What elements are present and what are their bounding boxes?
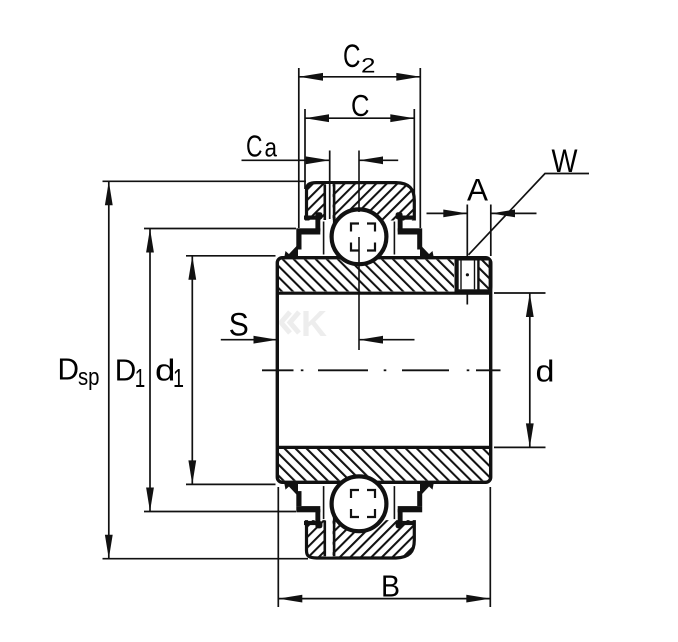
svg-text:sp: sp [78,364,100,391]
svg-text:1: 1 [173,365,184,393]
seal and flinger bottom-right [394,482,433,528]
inner ring outline [277,258,490,483]
dimension Ca [242,130,399,220]
dimension B (inner ring width) [278,487,490,607]
set screw W in inner ring [455,257,493,293]
bore centre line (dash-dot) [262,369,501,371]
svg-text:C: C [343,38,361,74]
seal and flinger top-right [394,212,433,258]
ball top [332,209,387,264]
svg-text:C: C [246,130,263,164]
dimension d1 (inner ring outside diameter) [155,256,276,485]
cage bottom (dashed square) [351,490,375,517]
dimension A (set screw axis to face) [427,171,537,304]
svg-text:1: 1 [135,365,146,393]
seal and flinger top-left [284,212,335,258]
cage top (dashed square) [351,224,375,251]
raceway clearance around top ball [331,208,388,265]
svg-text:a: a [265,133,278,163]
seal and flinger bottom-left [284,482,335,528]
raceway clearance around bottom ball [331,475,388,532]
svg-text:2: 2 [361,55,376,78]
inner ring top band hatch [279,259,454,291]
dimension C2 [299,38,421,228]
svg-text:D: D [115,354,137,388]
svg-text:A: A [467,171,488,207]
outer ring bottom cross-section (hatched) [307,520,415,558]
dimension d (bore diameter) [494,293,555,447]
watermark logo [281,303,327,344]
svg-text:D: D [58,352,80,386]
label W with leader to set screw [469,143,590,255]
dimension D1 (seal outside diameter) [115,229,296,512]
dimension S (face to ball centre plane) [221,306,415,343]
ball bottom [332,476,387,531]
svg-text:B: B [381,570,400,604]
lubrication groove in outer ring bottom [325,520,334,557]
svg-text:C: C [351,89,370,123]
svg-text:W: W [552,143,578,179]
ball centre plane line [358,151,360,351]
outer ring top cross-section (hatched) [307,183,415,221]
svg-text:d: d [536,355,555,389]
dimension C [305,89,414,197]
svg-text:K: K [301,303,327,344]
svg-text:S: S [229,306,249,342]
dimension Dsp (sphere outside diameter) [58,181,309,558]
inner ring bottom band hatch [279,449,489,481]
lubrication groove in outer ring top [325,184,334,221]
